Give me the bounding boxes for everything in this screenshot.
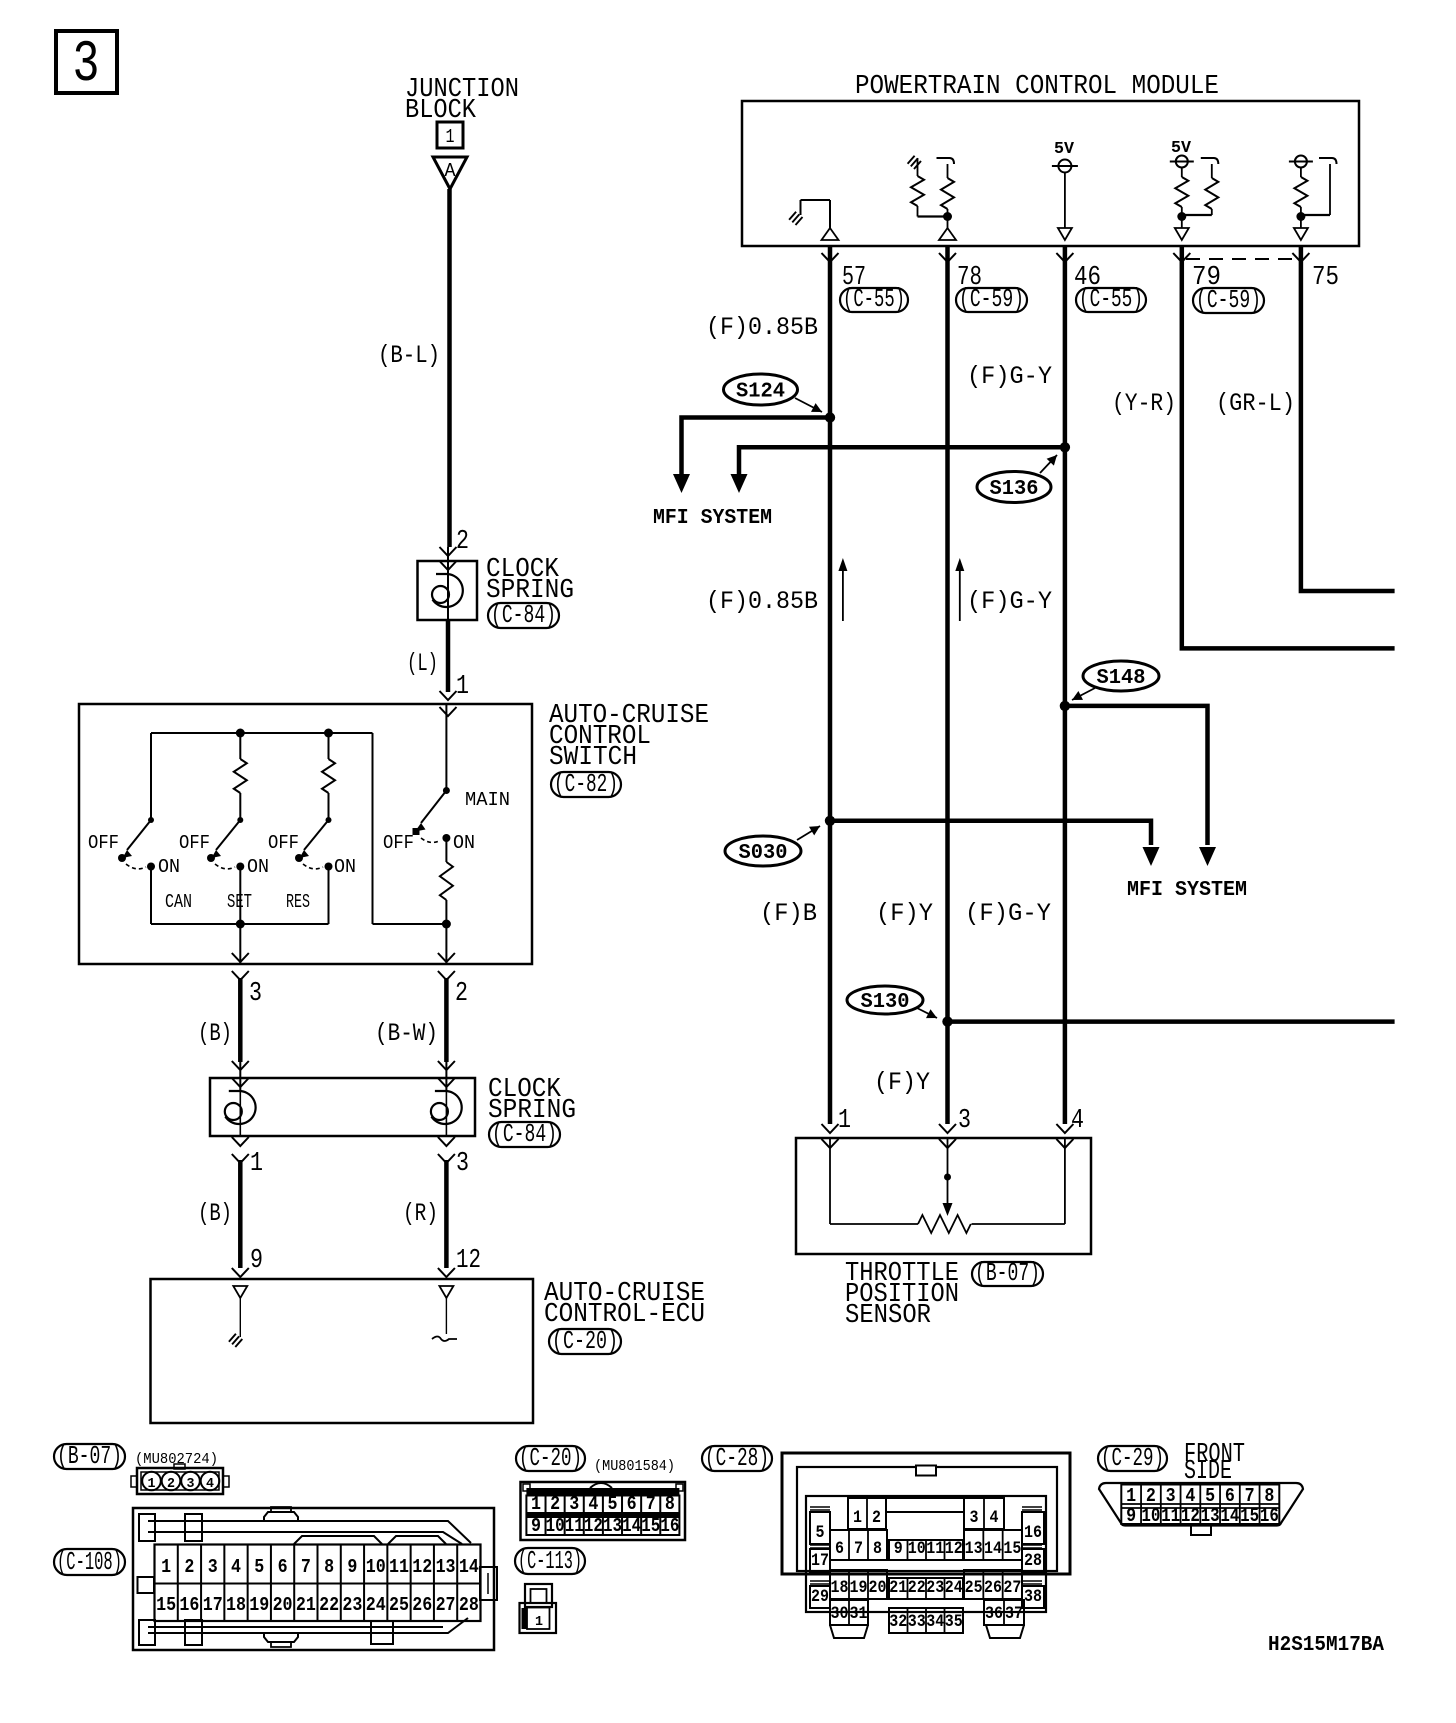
- TPS wiper from pin 3: [943, 1138, 953, 1216]
- svg-text:(F)G-Y: (F)G-Y: [967, 362, 1052, 391]
- SET switch: [207, 817, 244, 924]
- svg-text:16: 16: [660, 1515, 679, 1537]
- PCM pin 57: [822, 253, 909, 314]
- dashed connector grouping line pins 79-75: [1186, 258, 1297, 260]
- svg-text:(MU802724): (MU802724): [135, 1451, 218, 1468]
- wire pin3 inside box: [239, 924, 241, 964]
- PCM circuit pin 75: [1289, 156, 1337, 241]
- svg-text:11: 11: [1161, 1505, 1180, 1527]
- switch pin 3: [232, 953, 262, 1009]
- svg-text:SENSOR: SENSOR: [845, 1301, 931, 1331]
- label (GR-L): [1216, 389, 1295, 418]
- svg-text:(C-82): (C-82): [554, 769, 618, 799]
- svg-text:3: 3: [73, 33, 100, 98]
- svg-text:24: 24: [945, 1578, 963, 1598]
- svg-text:(C-84): (C-84): [491, 600, 556, 630]
- svg-text:12: 12: [456, 1246, 481, 1276]
- wire (B-W) switch to clock spring: [375, 978, 446, 1062]
- label (F)B: [760, 899, 817, 928]
- svg-text:S030: S030: [739, 842, 788, 865]
- svg-text:37: 37: [1005, 1604, 1023, 1624]
- svg-text:1: 1: [838, 1106, 851, 1136]
- svg-text:14: 14: [984, 1539, 1002, 1559]
- clock spring C-84 label: [486, 555, 574, 630]
- connector label C-28: [702, 1443, 772, 1473]
- ECU internal ground at pin 9: [229, 1286, 247, 1347]
- svg-text:2: 2: [455, 979, 468, 1009]
- svg-text:9: 9: [347, 1556, 357, 1578]
- svg-text:22: 22: [319, 1594, 339, 1616]
- TPS pin 3: [939, 1106, 971, 1148]
- clock spring lower pin 3: [438, 1137, 469, 1179]
- switch pin 2: [438, 953, 468, 1009]
- MFI SYSTEM label upper: [653, 507, 772, 530]
- svg-text:(F)0.85B: (F)0.85B: [706, 587, 818, 616]
- svg-text:2: 2: [550, 1493, 560, 1515]
- svg-text:(C-20): (C-20): [519, 1443, 582, 1473]
- MFI SYSTEM label lower: [1127, 879, 1247, 902]
- svg-text:12: 12: [584, 1515, 603, 1537]
- svg-text:6: 6: [627, 1493, 637, 1515]
- wire S136 branch to MFI system: [731, 447, 1065, 493]
- wire (B) clock spring to ECU pin 9: [198, 1160, 240, 1268]
- svg-text:(B-L): (B-L): [378, 341, 440, 370]
- node S148 junction: [1060, 701, 1070, 711]
- svg-text:22: 22: [908, 1578, 926, 1598]
- connector C-113 pinout: [520, 1584, 557, 1633]
- svg-text:13: 13: [1201, 1505, 1220, 1527]
- resistor in MAIN branch: [440, 838, 453, 924]
- MAIN OFF/ON labels: [383, 789, 510, 854]
- PCM pin 78: [939, 253, 1027, 314]
- svg-text:23: 23: [342, 1594, 362, 1616]
- svg-text:7: 7: [854, 1539, 863, 1559]
- svg-text:3: 3: [970, 1508, 979, 1528]
- label (F)0.85B upper: [706, 313, 818, 342]
- auto-cruise control ECU C-20 box: [151, 1279, 534, 1423]
- splice S136: [977, 455, 1057, 503]
- svg-text:4: 4: [990, 1508, 999, 1528]
- wire (F)B pin 57 trunk: [828, 247, 833, 1124]
- svg-text:16: 16: [1260, 1505, 1279, 1527]
- svg-text:2: 2: [167, 1476, 175, 1492]
- svg-text:(L): (L): [407, 649, 438, 678]
- svg-text:33: 33: [908, 1612, 926, 1632]
- PCM ground circuit pin 57: [789, 200, 838, 240]
- svg-text:9: 9: [894, 1539, 903, 1559]
- clock spring C-84 (lower) entry chevrons: [232, 1061, 455, 1090]
- svg-text:ON: ON: [334, 856, 356, 878]
- svg-text:(F)Y: (F)Y: [876, 899, 933, 928]
- svg-text:25: 25: [389, 1594, 409, 1616]
- svg-text:28: 28: [1024, 1551, 1042, 1571]
- splice S130: [847, 986, 937, 1018]
- svg-text:(Y-R): (Y-R): [1112, 389, 1176, 418]
- svg-text:OFF: OFF: [383, 832, 414, 854]
- svg-text:12: 12: [412, 1556, 432, 1578]
- node top rail / RES branch: [324, 729, 333, 738]
- connector label B-07: [54, 1441, 218, 1471]
- wire S124 to MFI system: [673, 418, 830, 494]
- pin 2 of clock spring C-84: [440, 527, 470, 619]
- svg-text:29: 29: [811, 1587, 829, 1607]
- wire S130 branch to right: [948, 1019, 1395, 1024]
- svg-text:24: 24: [366, 1594, 386, 1616]
- svg-text:12: 12: [1181, 1505, 1200, 1527]
- svg-text:3: 3: [187, 1476, 195, 1492]
- svg-text:OFF: OFF: [268, 832, 299, 854]
- PCM 5V supply pin 46: [1052, 140, 1078, 240]
- svg-text:(MU801584): (MU801584): [594, 1458, 675, 1475]
- svg-text:20: 20: [869, 1578, 887, 1598]
- svg-text:13: 13: [965, 1539, 983, 1559]
- MAIN switch wire from pin 1: [445, 704, 447, 790]
- svg-text:6: 6: [1225, 1485, 1235, 1507]
- svg-text:1: 1: [446, 126, 455, 148]
- svg-text:3: 3: [208, 1556, 218, 1578]
- connector C-28 pinout: [782, 1453, 1070, 1638]
- svg-text:16: 16: [179, 1594, 199, 1616]
- junction block connector 1: [437, 122, 463, 148]
- svg-text:(F)B: (F)B: [760, 899, 817, 928]
- svg-text:75: 75: [1312, 263, 1339, 293]
- svg-text:3: 3: [569, 1493, 579, 1515]
- svg-text:3: 3: [456, 1149, 469, 1179]
- label (F)G-Y mid: [967, 587, 1052, 616]
- svg-text:2: 2: [184, 1556, 194, 1578]
- svg-text:(B-07): (B-07): [57, 1441, 122, 1471]
- connector label C-20: [516, 1443, 675, 1475]
- svg-text:27: 27: [1003, 1578, 1021, 1598]
- wire (R) clock spring to ECU pin 12: [403, 1160, 446, 1268]
- wire (F)Y pin 78 trunk: [945, 247, 950, 1124]
- label (F)G-Y upper: [967, 362, 1052, 391]
- svg-text:1: 1: [535, 1614, 543, 1630]
- svg-text:(F)0.85B: (F)0.85B: [706, 313, 818, 342]
- svg-text:28: 28: [459, 1594, 479, 1616]
- svg-text:8: 8: [665, 1493, 675, 1515]
- ECU internal circuit at pin 12: [432, 1286, 457, 1341]
- svg-text:MFI SYSTEM: MFI SYSTEM: [653, 507, 772, 530]
- SET OFF/ON labels: [179, 832, 269, 913]
- svg-text:15: 15: [1240, 1505, 1259, 1527]
- svg-text:(R): (R): [403, 1199, 438, 1228]
- svg-text:2: 2: [872, 1508, 881, 1528]
- svg-text:11: 11: [926, 1539, 944, 1559]
- wire top rail to pin2 rail: [373, 733, 447, 924]
- svg-text:19: 19: [249, 1594, 269, 1616]
- svg-text:3: 3: [249, 979, 262, 1009]
- svg-text:SET: SET: [227, 891, 252, 913]
- svg-text:5: 5: [1205, 1485, 1215, 1507]
- junction block terminal A (triangle): [433, 157, 467, 189]
- connector C-29 pinout: [1099, 1483, 1303, 1535]
- label (F)Y: [876, 899, 933, 928]
- PCM pin 46: [1056, 253, 1146, 314]
- svg-text:ON: ON: [158, 856, 180, 878]
- svg-text:26: 26: [412, 1594, 432, 1616]
- TPS label: [845, 1258, 1043, 1331]
- svg-text:13: 13: [436, 1556, 456, 1578]
- MAIN switch: [413, 787, 451, 842]
- auto-cruise control switch label: [549, 701, 709, 799]
- svg-text:(B): (B): [198, 1019, 232, 1048]
- svg-text:4: 4: [1071, 1106, 1084, 1136]
- svg-text:36: 36: [985, 1604, 1003, 1624]
- clock spring C-84 (lower) box: [210, 1078, 475, 1136]
- svg-text:1: 1: [1126, 1485, 1136, 1507]
- svg-text:ON: ON: [453, 832, 475, 854]
- svg-text:10: 10: [546, 1515, 565, 1537]
- svg-text:6: 6: [278, 1556, 288, 1578]
- svg-text:H2S15M17BA: H2S15M17BA: [1268, 1634, 1384, 1657]
- svg-text:2: 2: [1146, 1485, 1156, 1507]
- svg-text:(C-20): (C-20): [552, 1326, 618, 1356]
- svg-text:(F)Y: (F)Y: [874, 1068, 930, 1097]
- svg-text:7: 7: [301, 1556, 311, 1578]
- svg-text:5: 5: [816, 1523, 825, 1543]
- svg-text:30: 30: [831, 1604, 849, 1624]
- svg-text:S124: S124: [736, 381, 785, 404]
- TPS pin 1: [822, 1106, 852, 1148]
- resistor in SET branch: [234, 733, 247, 820]
- svg-text:S148: S148: [1097, 667, 1146, 690]
- svg-text:20: 20: [273, 1594, 293, 1616]
- svg-text:4: 4: [1185, 1485, 1195, 1507]
- svg-text:(C-28): (C-28): [705, 1443, 769, 1473]
- svg-text:RES: RES: [286, 891, 310, 913]
- connector B-07 pinout: [131, 1464, 229, 1494]
- svg-text:16: 16: [1024, 1523, 1042, 1543]
- connector label C-113: [515, 1546, 585, 1576]
- svg-text:S130: S130: [861, 991, 910, 1014]
- svg-text:1: 1: [531, 1493, 541, 1515]
- svg-text:15: 15: [1003, 1539, 1021, 1559]
- svg-text:9: 9: [531, 1515, 541, 1537]
- splice S124: [724, 374, 823, 412]
- svg-text:38: 38: [1024, 1587, 1042, 1607]
- svg-text:(B-W): (B-W): [375, 1019, 438, 1048]
- svg-text:(C-59): (C-59): [959, 284, 1024, 314]
- node S124 junction: [825, 412, 835, 422]
- svg-text:(GR-L): (GR-L): [1216, 389, 1295, 418]
- label (Y-R): [1112, 389, 1176, 418]
- svg-text:2: 2: [456, 527, 469, 557]
- svg-text:(C-55): (C-55): [843, 284, 905, 314]
- svg-text:(F)G-Y: (F)G-Y: [967, 587, 1052, 616]
- svg-text:17: 17: [811, 1551, 829, 1571]
- junction block label: [405, 75, 519, 126]
- node MAIN/pin2: [442, 920, 451, 965]
- svg-text:31: 31: [850, 1604, 868, 1624]
- svg-text:POWERTRAIN CONTROL MODULE: POWERTRAIN CONTROL MODULE: [855, 72, 1219, 102]
- flow arrow on (F)B wire: [838, 558, 847, 621]
- wire (GR-L) pin 75: [1301, 247, 1395, 591]
- svg-text:1: 1: [148, 1476, 156, 1492]
- svg-text:26: 26: [984, 1578, 1002, 1598]
- splice S148: [1072, 661, 1159, 700]
- svg-text:(C-59): (C-59): [1196, 285, 1261, 315]
- wire S148 to MFI system: [1065, 706, 1216, 866]
- svg-text:15: 15: [641, 1515, 660, 1537]
- svg-text:14: 14: [1220, 1505, 1239, 1527]
- connector C-108 pinout: [133, 1507, 497, 1650]
- svg-text:23: 23: [926, 1578, 944, 1598]
- node top rail / SET branch: [236, 729, 245, 738]
- svg-text:7: 7: [1245, 1485, 1255, 1507]
- svg-text:14: 14: [622, 1515, 641, 1537]
- svg-text:11: 11: [565, 1515, 584, 1537]
- svg-text:(F)G-Y: (F)G-Y: [965, 899, 1051, 928]
- svg-text:CAN: CAN: [165, 891, 192, 913]
- svg-text:8: 8: [1264, 1485, 1274, 1507]
- svg-text:4: 4: [231, 1556, 241, 1578]
- node bottom rail pin3: [236, 920, 245, 929]
- powertrain control module title: [855, 72, 1219, 102]
- label (F)G-Y lower: [965, 899, 1051, 928]
- label (F)0.85B lower: [706, 587, 818, 616]
- svg-text:11: 11: [389, 1556, 409, 1578]
- svg-text:(C-108): (C-108): [57, 1547, 122, 1577]
- svg-text:(C-55): (C-55): [1079, 284, 1143, 314]
- svg-text:(B): (B): [198, 1199, 232, 1228]
- TPS potentiometer track: [830, 1138, 1065, 1233]
- ECU pin 12: [438, 1246, 481, 1277]
- svg-text:34: 34: [926, 1612, 944, 1632]
- svg-text:21: 21: [889, 1578, 907, 1598]
- clock spring lower pin 1: [232, 1137, 263, 1179]
- node S130 junction: [942, 1016, 952, 1026]
- CAN switch: [118, 817, 155, 924]
- svg-text:7: 7: [646, 1493, 656, 1515]
- svg-text:A: A: [445, 160, 456, 182]
- node S030 junction: [825, 816, 835, 826]
- svg-text:(C-113): (C-113): [518, 1546, 582, 1576]
- svg-text:27: 27: [436, 1594, 456, 1616]
- connector label C-29: [1098, 1440, 1245, 1487]
- svg-text:9: 9: [250, 1246, 263, 1276]
- svg-text:MFI SYSTEM: MFI SYSTEM: [1127, 879, 1247, 902]
- svg-text:5V: 5V: [1054, 140, 1075, 159]
- svg-text:8: 8: [873, 1539, 882, 1559]
- switch bottom rail (CAN/SET/RES): [151, 923, 329, 925]
- svg-text:17: 17: [203, 1594, 223, 1616]
- throttle position sensor box: [796, 1138, 1091, 1254]
- PCM pull resistors pin 78: [908, 156, 956, 240]
- svg-text:6: 6: [835, 1539, 844, 1559]
- wire (Y-R) pin 79: [1182, 247, 1395, 648]
- svg-text:25: 25: [965, 1578, 983, 1598]
- svg-text:(C-84): (C-84): [492, 1119, 557, 1149]
- pin 1 of auto-cruise switch: [440, 672, 470, 716]
- flow arrow on (F)Y wire: [955, 558, 964, 621]
- drawing number: [1268, 1634, 1384, 1657]
- ECU pin 9: [232, 1246, 263, 1277]
- label (F)Y lower: [874, 1068, 930, 1097]
- PCM pin 75: [1292, 253, 1339, 293]
- svg-text:OFF: OFF: [88, 832, 119, 854]
- clock spring C-84 (upper): [418, 561, 478, 620]
- wire S030 to MFI system: [830, 821, 1160, 866]
- svg-text:(C-29): (C-29): [1101, 1443, 1164, 1473]
- svg-text:18: 18: [831, 1578, 849, 1598]
- svg-text:10: 10: [908, 1539, 926, 1559]
- svg-text:OFF: OFF: [179, 832, 210, 854]
- ECU label: [544, 1279, 705, 1356]
- clock spring (lower) label: [488, 1075, 576, 1149]
- wire (L) clock spring to switch pin 1: [407, 620, 448, 692]
- svg-text:21: 21: [296, 1594, 316, 1616]
- svg-text:1: 1: [456, 672, 469, 702]
- svg-text:15: 15: [156, 1594, 176, 1616]
- svg-text:18: 18: [226, 1594, 246, 1616]
- TPS pin 4: [1056, 1106, 1084, 1148]
- wire (B-L) from junction block to clock spring: [378, 189, 450, 547]
- PCM 5V with resistors pin 79: [1170, 139, 1219, 240]
- svg-text:S136: S136: [990, 478, 1039, 501]
- svg-text:1: 1: [161, 1556, 171, 1578]
- PCM pin 79: [1173, 253, 1264, 315]
- svg-text:(B-07): (B-07): [975, 1258, 1040, 1288]
- svg-text:19: 19: [850, 1578, 868, 1598]
- powertrain control module box: [742, 101, 1359, 246]
- svg-text:4: 4: [206, 1476, 214, 1492]
- svg-text:12: 12: [945, 1539, 963, 1559]
- svg-text:3: 3: [958, 1106, 971, 1136]
- wire (B) switch to clock spring: [198, 978, 240, 1062]
- CAN OFF/ON labels: [88, 832, 192, 913]
- RES switch: [295, 817, 333, 924]
- svg-text:3: 3: [1166, 1485, 1176, 1507]
- svg-text:5: 5: [607, 1493, 617, 1515]
- switch top rail wire: [151, 732, 373, 734]
- svg-text:9: 9: [1126, 1505, 1136, 1527]
- svg-text:4: 4: [588, 1493, 598, 1515]
- splice S030: [725, 826, 820, 866]
- RES OFF/ON labels: [268, 832, 356, 913]
- wire (F)G-Y pin 46 trunk: [1063, 247, 1068, 1124]
- connector C-20 pinout: [521, 1482, 686, 1540]
- auto-cruise control switch C-82 box: [79, 704, 532, 964]
- svg-text:5: 5: [254, 1556, 264, 1578]
- svg-text:35: 35: [945, 1612, 963, 1632]
- svg-text:14: 14: [459, 1556, 479, 1578]
- node S136 junction: [1060, 442, 1070, 452]
- svg-text:1: 1: [853, 1508, 862, 1528]
- connector label C-108: [54, 1547, 125, 1577]
- svg-text:8: 8: [324, 1556, 334, 1578]
- svg-text:ON: ON: [247, 856, 269, 878]
- svg-text:13: 13: [603, 1515, 622, 1537]
- svg-text:MAIN: MAIN: [465, 789, 510, 811]
- page number box 3: [56, 31, 117, 98]
- resistor in RES branch: [322, 733, 335, 820]
- CAN switch branch wire: [150, 733, 152, 820]
- svg-text:1: 1: [250, 1149, 263, 1179]
- svg-text:10: 10: [366, 1556, 386, 1578]
- svg-text:10: 10: [1141, 1505, 1160, 1527]
- svg-text:32: 32: [889, 1612, 907, 1632]
